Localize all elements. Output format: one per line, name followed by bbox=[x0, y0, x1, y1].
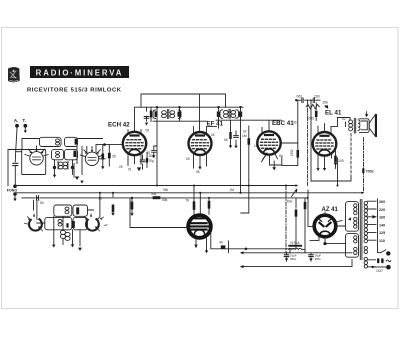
svg-text:02: 02 bbox=[342, 117, 346, 121]
loudspeaker bbox=[360, 112, 378, 137]
svg-text:RADIO·MINERVA: RADIO·MINERVA bbox=[36, 68, 124, 77]
svg-text:30k: 30k bbox=[163, 188, 169, 192]
coupling capacitor 002 bbox=[296, 94, 310, 102]
mains plug dots bbox=[371, 258, 390, 273]
ECH42 cathode ground bbox=[137, 167, 141, 171]
junction dot left bbox=[53, 166, 56, 169]
EL41 ground arrows bbox=[316, 168, 319, 171]
osc padder dark cap bbox=[72, 221, 75, 228]
EBC41 detector arrow bbox=[263, 155, 267, 160]
svg-text:05: 05 bbox=[146, 128, 150, 132]
filter cap 1 16uF bbox=[284, 253, 297, 261]
osc small cap bbox=[66, 223, 68, 227]
wire cap to FONO bbox=[14, 166, 16, 184]
EBC41 grid resistor left bbox=[242, 126, 250, 180]
IFT2 trimmer right bbox=[239, 112, 242, 117]
IFT2 side wires bbox=[219, 107, 241, 120]
brand banner RADIO-MINERVA bbox=[31, 67, 129, 78]
main bus L3 bbox=[40, 197, 308, 199]
svg-text:AZ 41: AZ 41 bbox=[322, 207, 339, 213]
svg-text:140: 140 bbox=[379, 223, 385, 227]
osc ground 3 bbox=[78, 248, 82, 251]
NSA filter choke bbox=[285, 241, 305, 253]
svg-text:50: 50 bbox=[279, 154, 283, 158]
grid resistor zigzag bbox=[306, 101, 328, 109]
mains taps bbox=[368, 199, 378, 242]
bus L2 right end bbox=[361, 192, 363, 194]
mains switch bbox=[378, 242, 391, 256]
coupling wire EBC to EL bbox=[296, 100, 298, 143]
tuning gang capacitor section 1 bbox=[25, 146, 48, 165]
coil in box A bbox=[56, 139, 60, 142]
ground RF bank right bbox=[74, 164, 79, 178]
IFT1 trimmer right bbox=[178, 112, 181, 117]
svg-text:FONO: FONO bbox=[7, 189, 18, 193]
osc coil circles box1 bbox=[65, 207, 69, 210]
decoupling RC above ECH42 bbox=[144, 107, 152, 125]
svg-text:125: 125 bbox=[379, 231, 385, 235]
osc coil box 2 bbox=[73, 205, 88, 216]
svg-text:350v: 350v bbox=[315, 257, 322, 261]
rectifier tube AZ41 bbox=[314, 215, 336, 237]
AVC dash-dot line bbox=[307, 100, 309, 185]
antenna terminal A bbox=[14, 118, 19, 128]
osc ground 1 bbox=[52, 245, 55, 248]
svg-text:EL 41: EL 41 bbox=[325, 109, 342, 116]
trimmer cap B bbox=[75, 139, 78, 145]
bus component R 132 bbox=[130, 197, 133, 216]
transformer core bbox=[360, 200, 362, 260]
filter cap 2 16uF bbox=[309, 253, 322, 261]
eye tube feed resistors bbox=[162, 186, 210, 215]
HT dash-dot vertical bbox=[285, 186, 287, 253]
junction dots IF wires bbox=[156, 106, 158, 108]
svg-text:110: 110 bbox=[379, 239, 385, 243]
svg-text:1M: 1M bbox=[254, 144, 259, 148]
trimmer cap D bbox=[73, 151, 76, 157]
svg-text:7002: 7002 bbox=[366, 170, 374, 174]
main bus L1 bbox=[15, 185, 297, 187]
tube ECH42 bbox=[123, 132, 146, 155]
wire antenna to coil box bbox=[16, 151, 22, 153]
tube EF41 bbox=[189, 132, 212, 155]
output transformer T2 bbox=[349, 119, 360, 134]
svg-text:OUT: OUT bbox=[376, 269, 383, 273]
IFT2 transformer bbox=[220, 109, 239, 118]
power transformer primary box upper bbox=[346, 202, 359, 232]
osc coil circles box3 bbox=[58, 220, 62, 223]
svg-text:A.: A. bbox=[14, 118, 18, 123]
voltage selector arrow bbox=[372, 215, 376, 219]
svg-text:04: 04 bbox=[211, 133, 215, 137]
junction dot AZ bbox=[323, 242, 326, 245]
svg-text:T.: T. bbox=[23, 118, 26, 123]
main bus L2 bbox=[15, 192, 362, 194]
svg-text:50k: 50k bbox=[162, 198, 168, 202]
svg-text:02: 02 bbox=[243, 130, 247, 134]
eye tube left wire bbox=[130, 198, 188, 228]
wires RF bank verticals bbox=[55, 147, 87, 175]
svg-text:160: 160 bbox=[379, 216, 385, 220]
EBC41 cathode ground bbox=[272, 167, 276, 170]
EL41 bottom leads bbox=[318, 153, 332, 168]
EL41 top leads bbox=[318, 124, 331, 133]
series resistor to ECH bbox=[101, 145, 104, 170]
RF coil box B bbox=[65, 137, 78, 146]
RF coil box C bbox=[52, 149, 64, 159]
series capacitor FONO bus bbox=[37, 196, 39, 201]
diode arrow bbox=[325, 105, 329, 108]
EF41 screen RC right bbox=[229, 120, 239, 148]
top B+ wire bbox=[141, 94, 226, 132]
tuning gang capacitor section 2 bbox=[80, 147, 103, 166]
feedback nested wires bbox=[311, 100, 351, 181]
svg-text:05: 05 bbox=[196, 170, 200, 174]
EL41 anode to output transformer bbox=[331, 118, 350, 127]
EF41 cathode ground bbox=[198, 167, 201, 170]
svg-text:EBC 41: EBC 41 bbox=[272, 120, 294, 127]
tube EL41 bbox=[313, 132, 337, 156]
svg-text:7k: 7k bbox=[186, 199, 190, 203]
osc coil box 3 bbox=[45, 217, 72, 229]
svg-text:1M: 1M bbox=[242, 134, 247, 138]
IFT1 bottom wire bbox=[153, 120, 207, 122]
left arrow bottom bus bbox=[240, 265, 244, 268]
AZ41 bottom lead bbox=[310, 236, 325, 243]
svg-text:30: 30 bbox=[293, 120, 297, 124]
osc bank drop right bbox=[97, 193, 100, 220]
primary winding circles lower bbox=[354, 236, 357, 255]
junction dot right bbox=[71, 166, 74, 169]
bus component R 113 bbox=[111, 193, 114, 216]
secondary winding circles bbox=[364, 201, 367, 268]
EBC41 bottom leads bbox=[262, 153, 278, 165]
svg-text:20k: 20k bbox=[323, 101, 329, 105]
ECH42 bias RC bbox=[140, 153, 154, 170]
osc coil box 1 bbox=[54, 205, 72, 216]
ground RF bank left bbox=[53, 175, 56, 178]
svg-text:RICEVITORE 515/3 RIMLOCK: RICEVITORE 515/3 RIMLOCK bbox=[27, 88, 122, 94]
padder capacitor 2 crescent bbox=[84, 214, 107, 231]
coil in box C bbox=[56, 151, 60, 154]
tuning eye tube bbox=[188, 215, 211, 238]
IFT2 trimmer left bbox=[217, 112, 220, 117]
eye right wire bbox=[211, 218, 296, 252]
junction dot coupling bbox=[295, 99, 297, 101]
AZ41 to transformer wires bbox=[305, 190, 346, 253]
svg-text:50k: 50k bbox=[151, 192, 157, 196]
svg-text:50: 50 bbox=[40, 201, 44, 205]
tube EBC41 bbox=[257, 131, 280, 154]
svg-text:ECH 42: ECH 42 bbox=[108, 122, 130, 129]
eye cathode arrow bbox=[194, 245, 197, 249]
corner from pot bbox=[228, 241, 230, 253]
svg-text:350v: 350v bbox=[290, 257, 297, 261]
svg-text:63v: 63v bbox=[287, 200, 293, 204]
EBC41 anode load bbox=[282, 143, 299, 166]
eye ground bbox=[205, 250, 208, 253]
svg-text:200: 200 bbox=[314, 94, 320, 98]
svg-text:50: 50 bbox=[113, 155, 117, 159]
primary winding circles upper bbox=[354, 204, 357, 229]
svg-text:220: 220 bbox=[379, 208, 385, 212]
svg-text:01: 01 bbox=[128, 168, 132, 172]
grid capacitor ECH bbox=[108, 145, 116, 166]
IFT ground verticals bbox=[157, 120, 241, 193]
grid leak resistor 1M bbox=[309, 103, 318, 121]
IFT2 bottom wire bbox=[216, 119, 282, 121]
cap at 296 bbox=[295, 198, 298, 218]
Minerva emblem bbox=[9, 67, 20, 82]
osc bank drop left bbox=[34, 200, 37, 219]
junction dots on buses bbox=[36, 197, 38, 199]
IFT1 transformer bbox=[153, 107, 181, 121]
bifilar coil pair bbox=[58, 162, 68, 170]
svg-text:260: 260 bbox=[379, 200, 385, 204]
series capacitor 200 bbox=[311, 94, 320, 102]
power transformer primary box lower bbox=[346, 234, 359, 258]
bus resistor 50k bbox=[151, 192, 160, 199]
EBC41 top lead bbox=[262, 120, 269, 132]
IFT1 top wire bbox=[135, 107, 244, 131]
RF coil box D bbox=[65, 149, 78, 159]
svg-text:100: 100 bbox=[338, 159, 344, 163]
svg-text:06: 06 bbox=[224, 138, 228, 142]
bottom HT bus bbox=[244, 252, 353, 254]
svg-text:70μ: 70μ bbox=[149, 159, 155, 163]
osc tracking coil dark bbox=[60, 230, 70, 240]
ECH42 bottom leads bbox=[128, 153, 141, 165]
wire box to left rail bbox=[8, 150, 22, 186]
left arrow HT bus bbox=[240, 251, 244, 254]
AVC switch 63v bbox=[287, 189, 297, 204]
svg-text:03: 03 bbox=[186, 157, 190, 161]
part number 7002 bbox=[362, 168, 373, 173]
eye tube bottom leads bbox=[196, 236, 207, 250]
svg-text:20: 20 bbox=[99, 197, 103, 201]
coupling cap stub to ground bbox=[147, 146, 158, 158]
arrow into AZ41 filament bbox=[348, 217, 353, 220]
svg-text:1M: 1M bbox=[230, 188, 235, 192]
junction dot grid wire bbox=[103, 143, 106, 146]
svg-text:25: 25 bbox=[119, 165, 123, 169]
resistor 40 on bottom wire bbox=[221, 245, 226, 248]
wire boxB to ECH grid bbox=[78, 139, 106, 159]
EL41 cathode resistor 100 bbox=[334, 150, 344, 168]
svg-text:40: 40 bbox=[219, 241, 223, 245]
FONO jack bbox=[7, 184, 18, 201]
svg-text:20k: 20k bbox=[149, 154, 155, 158]
osc coil box 4 bbox=[73, 217, 88, 229]
svg-text:002: 002 bbox=[297, 94, 303, 98]
heater taps bbox=[368, 260, 376, 267]
ground gang2 bbox=[80, 181, 83, 184]
svg-text:N.S.A.: N.S.A. bbox=[291, 241, 301, 245]
grid wire gang2 to ECH42 bbox=[96, 145, 123, 152]
antenna terminal T bbox=[23, 118, 28, 133]
speaker field dashed lines bbox=[350, 134, 352, 178]
EF41 bottom leads bbox=[194, 154, 207, 169]
antenna coil box bbox=[22, 150, 46, 175]
tap labels bbox=[379, 200, 385, 243]
osc bank verticals bbox=[37, 210, 94, 246]
transformer bottom bus bbox=[244, 260, 353, 267]
main bus L3 stub bbox=[22, 197, 35, 199]
volume pot wire bbox=[241, 180, 249, 213]
ECH42 top leads bbox=[128, 130, 141, 134]
osc ground 2 bbox=[71, 244, 74, 247]
RF coil box A bbox=[40, 137, 62, 146]
svg-text:1002: 1002 bbox=[290, 149, 294, 157]
capacitor C-ant bbox=[13, 163, 18, 165]
wire gang1 top bbox=[22, 139, 40, 150]
IFT1 trimmer left bbox=[155, 111, 158, 117]
padder capacitor 1 crescent bbox=[25, 214, 43, 231]
AZ41 top lead bbox=[324, 212, 326, 214]
osc trimmer 1 bbox=[76, 207, 79, 214]
EF41 top leads bbox=[194, 127, 217, 134]
wire antenna down bbox=[15, 128, 17, 162]
